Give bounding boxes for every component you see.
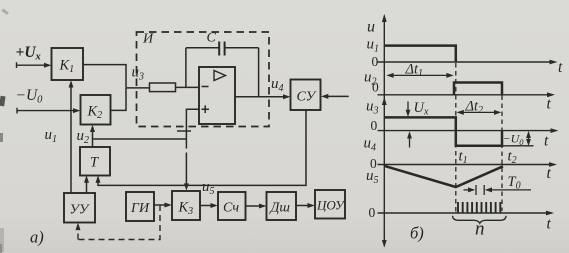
wire GI to K3: [154, 203, 172, 208]
label u4 axis: [364, 136, 377, 154]
label t row5: [547, 216, 552, 233]
axis t row3: [378, 128, 559, 133]
dashed wire clock feedback to UU: [76, 205, 161, 240]
label +Ux: [16, 44, 41, 63]
timing diagram: main vertical axis: [382, 14, 387, 248]
label I: [142, 32, 154, 47]
junction tick on dashed box bottom: [177, 130, 191, 132]
axis t row1: [378, 60, 558, 65]
waveform u3 pulses: [384, 117, 502, 145]
label K3: [178, 200, 194, 218]
label u: [367, 19, 375, 36]
svg-text:ЦОУ: ЦОУ: [316, 198, 346, 213]
label Ux: [414, 100, 429, 118]
label SU: [297, 90, 317, 105]
wire u2 tap to op-amp noninverting branch: [93, 138, 187, 140]
dimension T0 ticks: [476, 185, 484, 195]
wire op-amp noninverting input down to K3: [184, 109, 199, 190]
label 0 row1: [372, 54, 379, 69]
wire K1 output to summing node: [83, 65, 126, 88]
wire SCh to DSh: [246, 204, 267, 209]
svg-text:п: п: [475, 219, 485, 240]
label u4: [271, 76, 284, 94]
svg-text:0: 0: [369, 205, 376, 220]
label t2: [508, 149, 517, 167]
svg-text:u: u: [367, 19, 375, 36]
svg-text:ГИ: ГИ: [130, 201, 150, 216]
label DSh: [269, 201, 291, 216]
label dt2: [465, 99, 484, 117]
svg-text:б): б): [410, 224, 424, 243]
waveform u5 integrator triangle: [385, 166, 504, 187]
block T (trigger): [80, 147, 110, 176]
dimension dt1: [386, 73, 453, 78]
label a): [30, 228, 44, 247]
wire feedback left vertical: [185, 48, 187, 88]
svg-text:t: t: [547, 165, 552, 182]
label T: [90, 155, 99, 171]
measure line -U0 extension: [502, 145, 534, 147]
svg-text:t: t: [544, 133, 549, 150]
axis t row2: [378, 92, 556, 97]
label C: [207, 31, 217, 46]
label GI: [130, 201, 150, 216]
wire stub input into SU right: [321, 94, 349, 99]
label u5: [202, 179, 215, 197]
label t row4: [547, 165, 552, 182]
wire UU to T: [84, 175, 89, 193]
dimension dt2: [457, 110, 502, 115]
svg-text:а): а): [30, 228, 44, 247]
label t row1: [558, 59, 563, 76]
dashed time line t2: [501, 96, 503, 212]
dimension T0 arrows: [464, 187, 532, 192]
block TsOU (digital display): [315, 190, 345, 219]
op-amp U1: [199, 67, 235, 124]
wire UU to K1 (u1): [69, 80, 74, 193]
wire feedback top with capacitor gap: [186, 47, 259, 49]
label t row2: [547, 96, 552, 113]
svg-text:УУ: УУ: [70, 203, 90, 218]
svg-text:Сч: Сч: [223, 201, 239, 216]
dashed time line t1: [455, 63, 457, 212]
label u5 axis: [366, 168, 379, 186]
label -U0: [16, 87, 44, 106]
block K3: [172, 191, 200, 220]
waveform u5 pulse burst: [458, 202, 500, 213]
axis t row4: [378, 162, 558, 167]
label 0 row5: [369, 205, 376, 220]
wire op-amp output u4 to SU: [235, 94, 290, 99]
label K2: [87, 104, 103, 122]
svg-text:И: И: [142, 32, 154, 47]
axis t row5: [378, 211, 555, 216]
block K2: [81, 95, 111, 125]
label UU: [70, 203, 90, 218]
wire feedback right vertical: [258, 48, 260, 97]
svg-text:0: 0: [372, 54, 379, 69]
svg-text:t: t: [547, 216, 552, 233]
svg-text:t: t: [547, 96, 552, 113]
svg-text:С: С: [207, 31, 217, 46]
label u1: [45, 127, 58, 145]
dimension -U0 double arrow: [526, 131, 531, 146]
label 0 row3: [371, 118, 378, 133]
label u3 axis: [366, 99, 379, 117]
label dt1: [405, 62, 424, 80]
label u1 axis: [367, 37, 380, 55]
svg-text:Дш: Дш: [269, 201, 291, 216]
label TsOU: [316, 198, 346, 213]
wire SU output down and left to T: [96, 110, 307, 185]
label T0: [508, 174, 521, 192]
block UU (control unit): [64, 193, 95, 223]
scan artifacts: [0, 8, 9, 253]
block SU (comparator): [291, 80, 321, 111]
waveform u1 pulse: [384, 46, 456, 62]
waveform u2 pulse: [454, 83, 502, 95]
dashed box I (integrator): [137, 32, 270, 127]
label u2 axis: [364, 70, 377, 88]
node u3 wire to resistor: [126, 87, 150, 89]
label u2: [77, 128, 90, 146]
block DSh (decoder): [267, 192, 297, 220]
svg-text:0: 0: [371, 118, 378, 133]
wire -U0 input to K2: [17, 108, 80, 114]
wire DSh to TsOU: [296, 203, 315, 208]
label t1: [459, 149, 468, 167]
label K1: [59, 58, 75, 76]
wire resistor to op-amp inverting input: [176, 86, 200, 88]
label -U0: [503, 132, 525, 148]
brace n: [453, 216, 507, 224]
label u3: [132, 65, 145, 83]
label b): [410, 224, 424, 243]
label 0 row4: [370, 156, 377, 171]
resistor R: [150, 83, 176, 92]
svg-text:Т: Т: [90, 155, 99, 171]
block GI (clock generator): [126, 192, 154, 221]
label n: [475, 219, 485, 240]
wire K2 output to summing node: [111, 88, 127, 110]
dimension Ux arrows: [406, 102, 412, 148]
wire +Ux input to K1: [17, 62, 52, 68]
label SCh: [223, 201, 239, 216]
svg-text:t: t: [558, 59, 563, 76]
label t row3: [544, 133, 549, 150]
svg-text:СУ: СУ: [297, 90, 317, 105]
block K1: [52, 48, 84, 80]
wire K3 to SCh (u5): [200, 203, 218, 208]
capacitor C: [219, 42, 224, 56]
block SCh (counter): [218, 192, 246, 220]
svg-text:0: 0: [372, 80, 379, 95]
wire T to K2 (u2): [90, 125, 95, 147]
label 0 row2: [372, 80, 379, 95]
